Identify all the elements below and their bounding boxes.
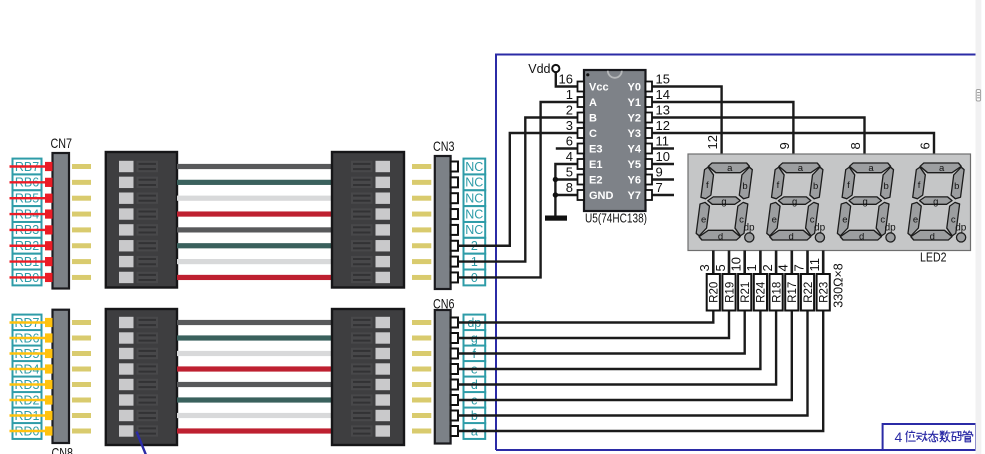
- svg-text:NC: NC: [465, 160, 483, 174]
- svg-text:R18: R18: [771, 282, 783, 303]
- svg-text:4: 4: [566, 149, 573, 164]
- svg-text:Y7: Y7: [628, 190, 641, 202]
- svg-text:8: 8: [848, 142, 863, 149]
- svg-text:dp: dp: [885, 223, 897, 234]
- svg-text:d: d: [788, 232, 793, 243]
- svg-text:13: 13: [656, 103, 670, 118]
- svg-text:9: 9: [656, 165, 663, 180]
- svg-text:CN3: CN3: [433, 138, 455, 154]
- svg-text:3: 3: [566, 118, 573, 133]
- svg-text:7: 7: [656, 180, 663, 195]
- svg-text:11: 11: [807, 258, 822, 272]
- svg-text:4: 4: [776, 264, 791, 271]
- svg-text:NC: NC: [465, 207, 483, 221]
- svg-text:A: A: [589, 97, 597, 109]
- svg-text:d: d: [718, 232, 723, 243]
- svg-text:5: 5: [713, 264, 728, 271]
- svg-text:a: a: [939, 163, 945, 174]
- svg-text:g: g: [863, 197, 868, 208]
- svg-text:15: 15: [656, 72, 670, 87]
- svg-text:C: C: [589, 128, 597, 140]
- svg-text:e: e: [913, 215, 918, 226]
- svg-text:Y0: Y0: [628, 82, 641, 94]
- svg-text:R21: R21: [740, 282, 752, 303]
- svg-text:GND: GND: [589, 190, 614, 202]
- svg-text:14: 14: [656, 87, 670, 102]
- svg-text:11: 11: [656, 134, 670, 149]
- svg-text:dp: dp: [743, 223, 755, 234]
- svg-text:CN8: CN8: [52, 445, 74, 454]
- svg-text:Vcc: Vcc: [589, 82, 609, 94]
- svg-text:f: f: [777, 180, 780, 191]
- svg-text:e: e: [701, 215, 706, 226]
- svg-text:Y2: Y2: [628, 113, 641, 125]
- svg-text:Y3: Y3: [628, 128, 641, 140]
- svg-text:5: 5: [566, 165, 573, 180]
- svg-text:4: 4: [895, 429, 903, 445]
- svg-text:16: 16: [559, 72, 573, 87]
- svg-text:NC: NC: [465, 192, 483, 206]
- svg-text:R19: R19: [724, 282, 736, 303]
- svg-text:12: 12: [656, 118, 670, 133]
- svg-text:7: 7: [791, 264, 806, 271]
- svg-text:e: e: [772, 215, 777, 226]
- svg-text:R22: R22: [803, 282, 815, 303]
- svg-text:B: B: [589, 113, 597, 125]
- svg-text:6: 6: [918, 142, 933, 149]
- svg-text:R20: R20: [709, 282, 721, 303]
- svg-text:E1: E1: [589, 159, 602, 171]
- svg-text:6: 6: [566, 134, 573, 149]
- svg-text:a: a: [727, 163, 733, 174]
- svg-text:b: b: [954, 181, 959, 192]
- svg-text:R23: R23: [819, 282, 831, 303]
- svg-text:2: 2: [566, 103, 573, 118]
- svg-text:Y6: Y6: [628, 175, 641, 187]
- svg-text:a: a: [798, 163, 804, 174]
- svg-text:f: f: [847, 180, 850, 191]
- svg-text:12: 12: [705, 135, 720, 149]
- svg-text:NC: NC: [465, 223, 483, 237]
- svg-text:f: f: [918, 180, 921, 191]
- svg-text:Y4: Y4: [628, 144, 642, 156]
- svg-text:8: 8: [566, 180, 573, 195]
- svg-text:d: d: [859, 232, 864, 243]
- svg-text:b: b: [813, 181, 818, 192]
- svg-text:NC: NC: [465, 176, 483, 190]
- svg-text:Y1: Y1: [628, 97, 641, 109]
- svg-text:1: 1: [744, 264, 759, 271]
- svg-text:U5(74HC138): U5(74HC138): [585, 211, 647, 226]
- svg-text:10: 10: [656, 149, 670, 164]
- svg-text:CN7: CN7: [51, 135, 73, 151]
- svg-text:10: 10: [729, 257, 744, 271]
- svg-text:dp: dp: [955, 223, 967, 234]
- svg-text:f: f: [706, 180, 709, 191]
- svg-text:E2: E2: [589, 175, 602, 187]
- svg-text:e: e: [842, 215, 847, 226]
- svg-text:LED2: LED2: [920, 250, 947, 265]
- svg-text:b: b: [742, 181, 747, 192]
- svg-text:Y5: Y5: [628, 159, 641, 171]
- svg-text:R24: R24: [756, 281, 768, 303]
- svg-text:g: g: [792, 197, 797, 208]
- svg-text:b: b: [884, 181, 889, 192]
- svg-text:3: 3: [697, 264, 712, 271]
- svg-text:1: 1: [566, 87, 573, 102]
- svg-text:2: 2: [760, 264, 775, 271]
- svg-text:a: a: [868, 163, 874, 174]
- svg-text:CN6: CN6: [433, 296, 455, 312]
- svg-text:330Ω×8: 330Ω×8: [832, 263, 846, 308]
- svg-text:dp: dp: [814, 223, 826, 234]
- svg-text:d: d: [930, 232, 935, 243]
- svg-text:9: 9: [777, 142, 792, 149]
- svg-text:g: g: [933, 197, 938, 208]
- svg-text:g: g: [721, 197, 726, 208]
- svg-text:Vdd: Vdd: [528, 62, 550, 76]
- svg-text:E3: E3: [589, 144, 602, 156]
- svg-text:R17: R17: [787, 282, 799, 303]
